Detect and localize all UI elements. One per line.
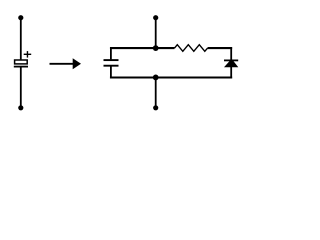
node D (bottom terminal of equivalent circuit) (153, 105, 158, 110)
polarized capacitor negative plate (14, 66, 28, 68)
junction (top rail) (153, 45, 159, 51)
wire (20, 18, 22, 60)
arrow (equivalence) shaft (50, 63, 75, 65)
node C (top terminal of equivalent circuit) (153, 15, 158, 20)
junction (bottom rail) (153, 75, 159, 81)
diode D cathode bar (224, 59, 238, 61)
node B (bottom terminal of polarized capacitor) (18, 105, 23, 110)
arrow head (73, 58, 81, 69)
wire (top rail, left of resistor) (110, 47, 175, 49)
capacitor C top plate (104, 59, 119, 61)
wire (155, 77, 157, 107)
wire (bottom rail) (110, 76, 232, 78)
polarity label + (24, 51, 32, 58)
polarized capacitor positive plate (15, 60, 28, 64)
node A (top terminal of polarized capacitor) (18, 15, 23, 20)
capacitor C bottom plate (104, 65, 119, 67)
wire (top rail, right of resistor) (208, 47, 233, 49)
diode D anode triangle (224, 59, 238, 68)
wire (right branch lower) (230, 67, 232, 79)
wire (left branch lower) (110, 66, 112, 79)
wire (155, 18, 157, 48)
wire (20, 67, 22, 108)
wire (left branch upper) (110, 47, 112, 59)
resistor R (175, 45, 208, 52)
wire (right branch upper) (230, 47, 232, 60)
